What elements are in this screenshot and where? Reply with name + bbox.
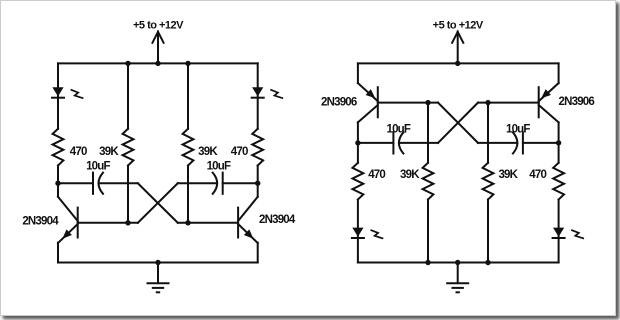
capacitor C2 10uF (left circuit) — [213, 173, 223, 194]
svg-text:39K: 39K — [498, 169, 518, 181]
wire: right circuit bottom rail — [358, 262, 559, 264]
wire: 39K branch right upper — [487, 103, 489, 163]
wire: cross diagonal C1 to Q2 base — [138, 183, 178, 223]
LED D3 (right circuit left) — [352, 228, 383, 239]
wire: Q3 collector down to cap node — [357, 122, 359, 162]
node: base and collector junction dots (right circuit) — [355, 100, 561, 146]
wire: left outer branch lower (R bottom to collector diag) — [57, 166, 59, 197]
transistor Q1 2N3904 (left) — [58, 197, 78, 243]
wire: Q2 emitter to bottom rail — [257, 243, 259, 263]
LED D1 (left circuit left) — [52, 87, 83, 98]
wire: Q4 base line — [478, 102, 539, 104]
wire: Q1 base line — [78, 222, 138, 224]
wire: cross diagonal Q1 base to C2 — [138, 183, 178, 223]
wire: C1 to cross diagonal — [99, 182, 138, 184]
svg-text:470: 470 — [70, 146, 87, 158]
resistor 39K (right circuit left) — [423, 163, 434, 200]
wire: cross diag to C2 — [178, 182, 217, 184]
svg-text:2N3904: 2N3904 — [22, 215, 59, 227]
wire: C4 to Q4 collector node — [523, 142, 559, 144]
transistor Q4 2N3906 (right) — [539, 83, 559, 122]
wire: 39K branch left lower — [427, 200, 429, 263]
transistor Q3 2N3906 (left) — [358, 83, 378, 122]
capacitor C1 10uF (left circuit) — [93, 173, 103, 194]
wire: rail to Q4 emitter — [558, 63, 560, 83]
transistor Q2 2N3904 (right) — [238, 197, 258, 243]
node: rail junction dot (right circuit) — [455, 61, 460, 66]
wire: left outer branch upper (rail to R top) — [57, 63, 59, 128]
svg-text:470: 470 — [231, 146, 248, 158]
svg-text:39K: 39K — [99, 146, 119, 158]
wire: right circuit +V top rail — [358, 62, 559, 64]
node: rail junction dots (left circuit) — [125, 61, 190, 66]
svg-text:39K: 39K — [400, 169, 420, 181]
LED D2 (left circuit right) — [252, 87, 283, 98]
resistor 470 (right circuit right) — [553, 163, 564, 200]
svg-text:10uF: 10uF — [207, 161, 231, 173]
resistor 470 (left circuit left) — [53, 129, 64, 166]
wire: cross diagonal Q3 base to C4 — [438, 103, 478, 143]
power +5 to +12V arrow (right circuit) — [433, 20, 484, 64]
wire: Q3 collector node to C3 — [358, 142, 394, 144]
node: bottom rail junction dots (right circuit) — [425, 260, 490, 265]
node: collector and base junction dots (left circuit) — [55, 181, 260, 226]
capacitor C4 10uF (right circuit) — [513, 132, 523, 153]
wire: 39K branch right lower (to Q2 base) — [187, 166, 189, 223]
wire: Q2 base line — [178, 222, 238, 224]
svg-text:10uF: 10uF — [386, 123, 410, 135]
svg-text:470: 470 — [529, 169, 546, 181]
svg-text:2N3906: 2N3906 — [559, 96, 595, 108]
resistor 39K (left circuit left) — [123, 129, 134, 166]
ground (right circuit) — [447, 263, 468, 293]
wire: right outer branch lower (R bottom to collector diag) — [257, 166, 259, 197]
svg-text:10uF: 10uF — [86, 161, 110, 173]
wire: rail to Q3 emitter — [357, 63, 359, 83]
wire: left circuit bottom rail — [58, 262, 258, 264]
wire: 39K branch left upper — [127, 63, 129, 128]
svg-text:+5 to +12V: +5 to +12V — [433, 20, 484, 32]
resistor 470 (right circuit left) — [353, 163, 364, 200]
wire: 39K branch right upper — [187, 63, 189, 128]
svg-text:10uF: 10uF — [506, 123, 530, 135]
capacitor C3 10uF (right circuit) — [393, 132, 403, 153]
wire: Q1 emitter to bottom rail — [57, 243, 59, 263]
svg-text:470: 470 — [368, 169, 385, 181]
wire: 39K branch left lower (to Q1 base) — [127, 166, 129, 223]
wire: cross diag to C4 — [478, 142, 517, 144]
wire: R to LED (right circuit left) — [357, 200, 359, 263]
node: ground tap dot (left circuit) — [155, 260, 160, 265]
svg-text:+5 to +12V: +5 to +12V — [133, 20, 184, 32]
wire: Q4 collector down to cap node — [558, 122, 560, 162]
resistor 39K (right circuit right) — [483, 163, 494, 200]
wire: R to LED (right circuit right) — [558, 200, 560, 263]
wire: C2 to Q2 collector — [223, 182, 258, 184]
svg-text:39K: 39K — [198, 146, 218, 158]
LED D4 (right circuit right) — [553, 228, 584, 239]
wire: Q3 base line — [378, 102, 438, 104]
wire: left circuit +V top rail — [58, 62, 258, 64]
svg-text:2N3904: 2N3904 — [259, 214, 296, 226]
resistor 39K (left circuit right) — [183, 129, 194, 166]
ground (left circuit) — [148, 263, 169, 293]
wire: 39K branch right lower — [487, 200, 489, 263]
wire: Q1 collector to C1 — [58, 182, 93, 184]
wire: 39K branch left upper (base to R top) — [427, 103, 429, 163]
resistor 470 (left circuit right) — [252, 129, 263, 166]
power +5 to +12V arrow (left circuit) — [133, 20, 184, 64]
svg-text:2N3906: 2N3906 — [321, 96, 357, 108]
wire: C3 to cross diagonal — [399, 142, 438, 144]
wire: right outer branch upper (rail to R top) — [257, 63, 259, 128]
wire: cross diagonal C3 to Q4 base — [438, 103, 478, 143]
